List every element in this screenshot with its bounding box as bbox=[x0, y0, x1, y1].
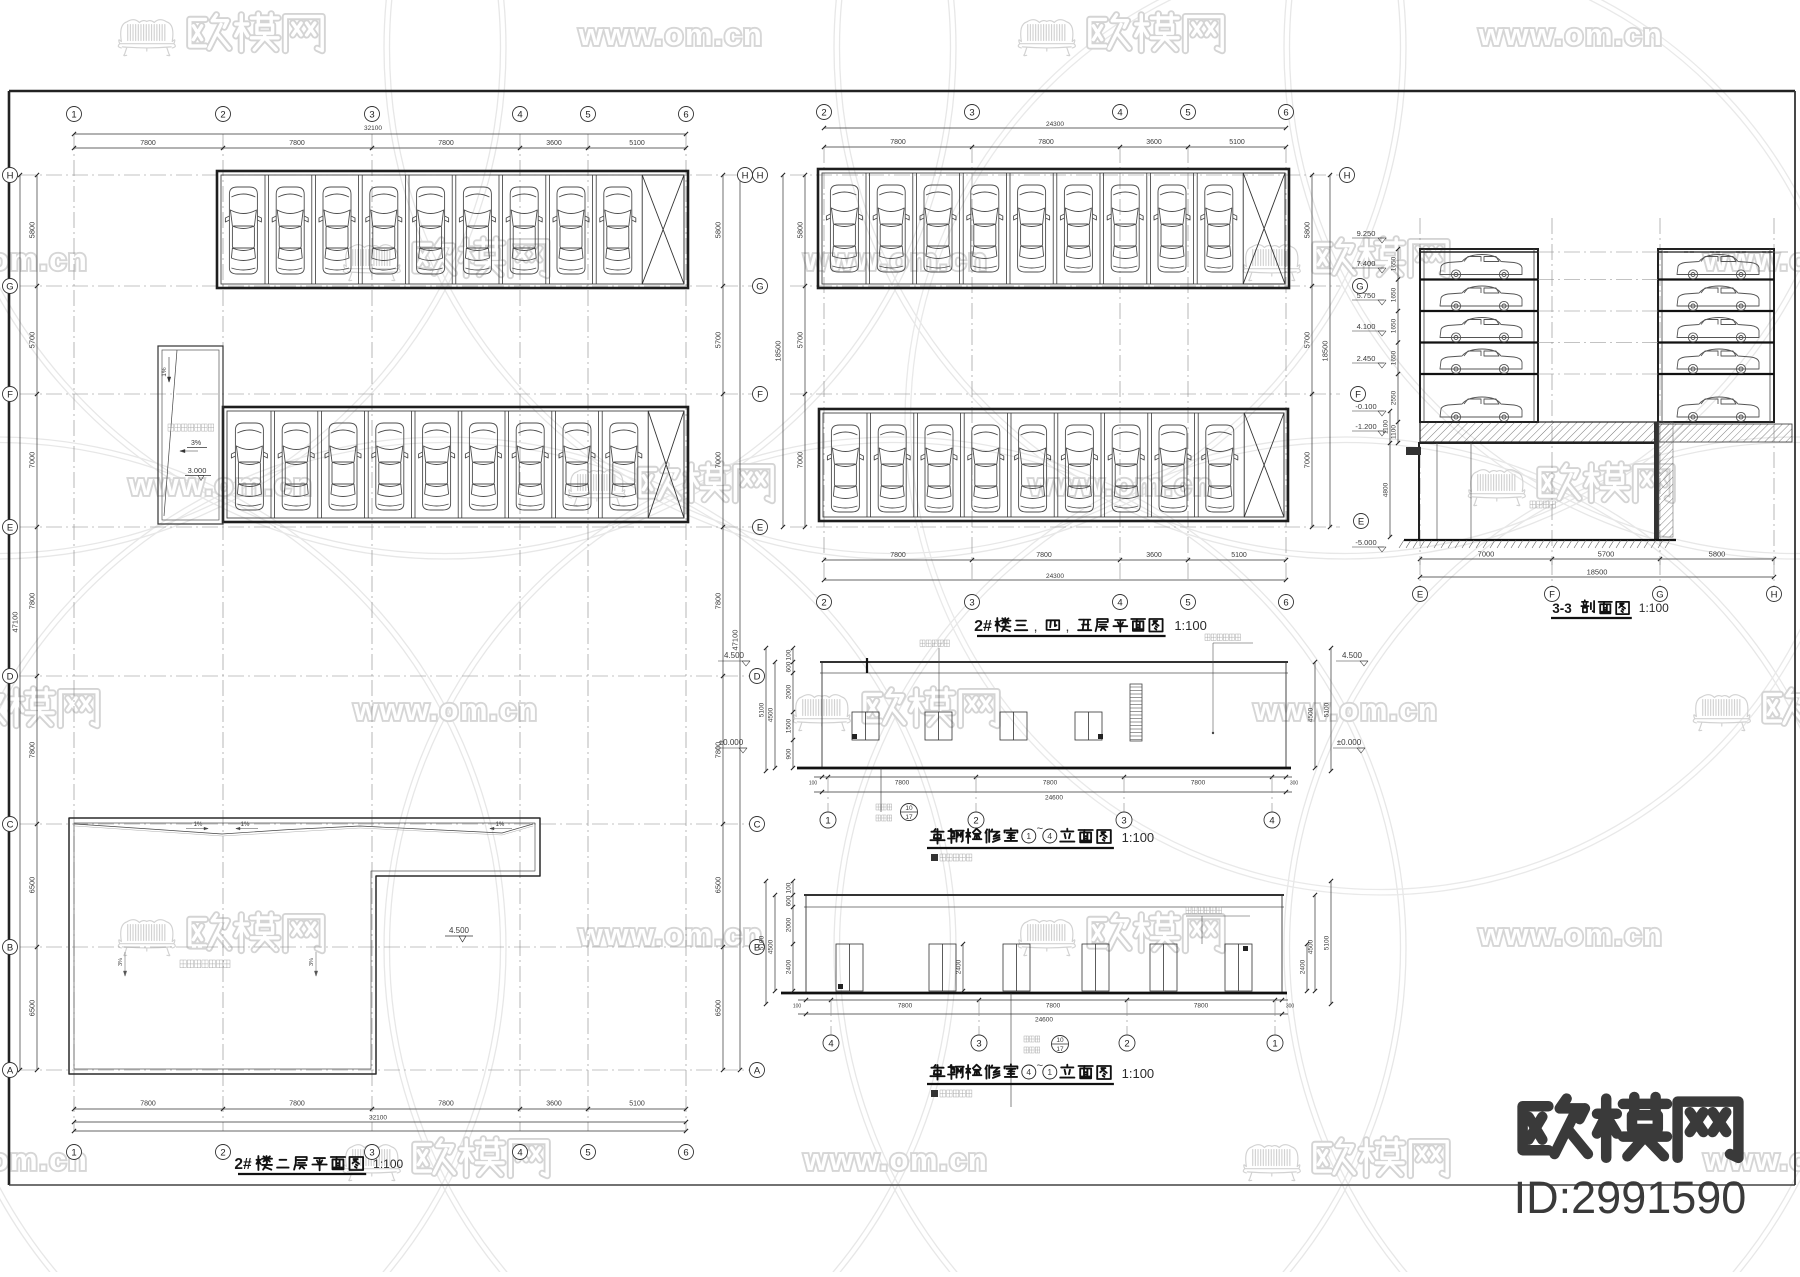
svg-text:www.om.cn: www.om.cn bbox=[353, 692, 539, 727]
svg-text:5700: 5700 bbox=[1598, 550, 1615, 559]
svg-text:www.om.cn: www.om.cn bbox=[1703, 242, 1800, 277]
svg-text:7800: 7800 bbox=[1194, 1003, 1209, 1010]
svg-text:H: H bbox=[757, 170, 764, 181]
svg-text:900: 900 bbox=[786, 748, 793, 759]
svg-text:18500: 18500 bbox=[1587, 568, 1608, 577]
svg-text:7800: 7800 bbox=[438, 1101, 454, 1108]
svg-text:5: 5 bbox=[585, 1147, 590, 1158]
svg-text:2550: 2550 bbox=[1391, 390, 1398, 405]
svg-text:4500: 4500 bbox=[1308, 939, 1315, 954]
svg-text:3: 3 bbox=[969, 597, 974, 608]
svg-text:7800: 7800 bbox=[890, 552, 906, 559]
svg-text:G: G bbox=[756, 281, 763, 292]
svg-text:7800: 7800 bbox=[1046, 1003, 1061, 1010]
svg-text:9.250: 9.250 bbox=[1357, 229, 1376, 238]
svg-text:24600: 24600 bbox=[1045, 795, 1063, 802]
svg-text:4: 4 bbox=[1117, 597, 1122, 608]
svg-text:2: 2 bbox=[220, 1147, 225, 1158]
svg-text:5100: 5100 bbox=[1229, 139, 1245, 146]
svg-text:7800: 7800 bbox=[1038, 139, 1054, 146]
svg-text:7800: 7800 bbox=[1043, 780, 1058, 787]
svg-text:5: 5 bbox=[1185, 597, 1190, 608]
svg-text:100: 100 bbox=[809, 781, 818, 787]
svg-text:1: 1 bbox=[71, 109, 76, 120]
svg-text:E: E bbox=[757, 522, 763, 533]
svg-text:5100: 5100 bbox=[629, 1101, 645, 1108]
svg-text:2: 2 bbox=[973, 815, 978, 826]
svg-text:-5.000: -5.000 bbox=[1355, 538, 1376, 547]
svg-text:,: , bbox=[1034, 618, 1038, 634]
svg-text:6: 6 bbox=[1283, 597, 1288, 608]
svg-text:2: 2 bbox=[821, 107, 826, 118]
svg-text:H: H bbox=[7, 170, 14, 181]
svg-text:3: 3 bbox=[976, 1038, 981, 1049]
svg-text:F: F bbox=[1549, 589, 1555, 600]
svg-text:F: F bbox=[7, 389, 13, 400]
svg-text:5100: 5100 bbox=[759, 935, 766, 950]
svg-text:4500: 4500 bbox=[1308, 707, 1315, 722]
svg-text:1%: 1% bbox=[161, 367, 168, 377]
svg-text:100: 100 bbox=[786, 882, 793, 893]
svg-text:2000: 2000 bbox=[786, 917, 793, 932]
svg-text:1%: 1% bbox=[194, 822, 203, 828]
svg-text:4500: 4500 bbox=[768, 939, 775, 954]
svg-text:5100: 5100 bbox=[1324, 702, 1331, 717]
svg-text:4.500: 4.500 bbox=[449, 926, 470, 935]
svg-text:1:100: 1:100 bbox=[1174, 618, 1207, 633]
svg-text:1:100: 1:100 bbox=[373, 1157, 403, 1171]
svg-text:A: A bbox=[754, 1065, 761, 1076]
svg-text:24300: 24300 bbox=[1046, 573, 1064, 580]
svg-text:2000: 2000 bbox=[786, 684, 793, 699]
svg-text:4: 4 bbox=[828, 1038, 833, 1049]
svg-text:2400: 2400 bbox=[1300, 959, 1307, 974]
svg-text:1650: 1650 bbox=[1391, 350, 1398, 365]
svg-text:G: G bbox=[1656, 589, 1663, 600]
svg-text:4: 4 bbox=[1269, 815, 1274, 826]
svg-text:2.450: 2.450 bbox=[1357, 354, 1376, 363]
svg-text:3600: 3600 bbox=[1146, 139, 1162, 146]
svg-text:www.om.cn: www.om.cn bbox=[578, 17, 764, 52]
svg-text:C: C bbox=[754, 819, 761, 830]
svg-text:3600: 3600 bbox=[546, 1101, 562, 1108]
svg-text:100: 100 bbox=[786, 649, 793, 660]
svg-text:4: 4 bbox=[1026, 1067, 1031, 1077]
svg-text:5800: 5800 bbox=[1709, 550, 1726, 559]
svg-text:3%: 3% bbox=[309, 958, 315, 966]
svg-text:7800: 7800 bbox=[438, 140, 454, 147]
svg-text:1: 1 bbox=[825, 815, 830, 826]
svg-text:1:100: 1:100 bbox=[1122, 830, 1155, 845]
svg-text:B: B bbox=[7, 942, 13, 953]
svg-text:7800: 7800 bbox=[714, 593, 723, 610]
svg-text:5100: 5100 bbox=[1324, 935, 1331, 950]
svg-text:7800: 7800 bbox=[890, 139, 906, 146]
svg-text:3: 3 bbox=[1121, 815, 1126, 826]
svg-text:5100: 5100 bbox=[759, 702, 766, 717]
svg-text:www.om.cn: www.om.cn bbox=[1478, 17, 1664, 52]
svg-text:5800: 5800 bbox=[28, 222, 37, 239]
svg-text:4.500: 4.500 bbox=[1342, 651, 1363, 660]
svg-text:47100: 47100 bbox=[11, 612, 20, 633]
svg-text:1500: 1500 bbox=[786, 718, 793, 733]
svg-text:1%: 1% bbox=[241, 822, 250, 828]
svg-text:24600: 24600 bbox=[1035, 1017, 1053, 1024]
svg-text:1: 1 bbox=[1047, 1067, 1052, 1077]
svg-text:7000: 7000 bbox=[796, 452, 805, 469]
svg-text:www.om.cn: www.om.cn bbox=[1478, 917, 1664, 952]
svg-text:18500: 18500 bbox=[1321, 341, 1330, 362]
svg-text:2: 2 bbox=[1124, 1038, 1129, 1049]
svg-text:7800: 7800 bbox=[28, 742, 37, 759]
svg-text:6500: 6500 bbox=[28, 1000, 37, 1017]
svg-text:H: H bbox=[1344, 170, 1351, 181]
svg-text:6500: 6500 bbox=[714, 1000, 723, 1017]
svg-text:2#: 2# bbox=[974, 618, 992, 635]
svg-text:1100: 1100 bbox=[1391, 425, 1398, 439]
svg-text:3600: 3600 bbox=[1146, 552, 1162, 559]
svg-text:5700: 5700 bbox=[796, 332, 805, 349]
svg-text:1: 1 bbox=[71, 1147, 76, 1158]
svg-text:G: G bbox=[6, 281, 13, 292]
svg-text:5100: 5100 bbox=[1231, 552, 1247, 559]
svg-text:6: 6 bbox=[1283, 107, 1288, 118]
svg-text:24300: 24300 bbox=[1046, 121, 1064, 128]
svg-text:www.om.cn: www.om.cn bbox=[0, 242, 88, 277]
svg-text:47100: 47100 bbox=[731, 630, 740, 651]
svg-text:7000: 7000 bbox=[28, 452, 37, 469]
svg-text:www.om.cn: www.om.cn bbox=[1253, 692, 1439, 727]
svg-text:7800: 7800 bbox=[28, 593, 37, 610]
svg-text:1: 1 bbox=[1272, 1038, 1277, 1049]
svg-text:4.100: 4.100 bbox=[1357, 322, 1376, 331]
svg-text:D: D bbox=[754, 671, 761, 682]
svg-text:100: 100 bbox=[793, 1004, 802, 1010]
svg-text:4: 4 bbox=[517, 1147, 522, 1158]
svg-text:3%: 3% bbox=[191, 440, 201, 447]
svg-text:E: E bbox=[1417, 589, 1423, 600]
svg-text:5700: 5700 bbox=[714, 332, 723, 349]
svg-text:3600: 3600 bbox=[546, 140, 562, 147]
svg-text:www.om.cn: www.om.cn bbox=[1028, 467, 1214, 502]
svg-text:6500: 6500 bbox=[714, 877, 723, 894]
svg-text:7800: 7800 bbox=[289, 140, 305, 147]
svg-text:4800: 4800 bbox=[1383, 482, 1390, 497]
svg-text:5700: 5700 bbox=[1303, 332, 1312, 349]
svg-text:7800: 7800 bbox=[895, 780, 910, 787]
svg-text:www.om.cn: www.om.cn bbox=[803, 1142, 989, 1177]
svg-text:ID:2991590: ID:2991590 bbox=[1514, 1172, 1747, 1223]
svg-text:E: E bbox=[7, 522, 13, 533]
svg-text:5800: 5800 bbox=[796, 222, 805, 239]
svg-text:4: 4 bbox=[1117, 107, 1122, 118]
svg-text:-0.100: -0.100 bbox=[1355, 402, 1376, 411]
svg-text:G: G bbox=[1356, 281, 1363, 292]
svg-text:±0.000: ±0.000 bbox=[719, 738, 744, 747]
svg-text:-1.200: -1.200 bbox=[1355, 422, 1376, 431]
svg-text:3: 3 bbox=[969, 107, 974, 118]
svg-text:3.000: 3.000 bbox=[188, 466, 207, 475]
svg-text:3%: 3% bbox=[118, 958, 124, 966]
svg-text:7000: 7000 bbox=[714, 452, 723, 469]
svg-text:1%: 1% bbox=[496, 822, 505, 828]
svg-text:5: 5 bbox=[585, 109, 590, 120]
svg-text:17: 17 bbox=[1056, 1046, 1064, 1053]
svg-text:2400: 2400 bbox=[786, 959, 793, 974]
svg-text:F: F bbox=[1355, 389, 1361, 400]
svg-text:4.500: 4.500 bbox=[724, 651, 745, 660]
svg-text:6: 6 bbox=[683, 1147, 688, 1158]
svg-text:32100: 32100 bbox=[364, 125, 382, 132]
svg-text:10: 10 bbox=[1056, 1037, 1064, 1044]
svg-text:7800: 7800 bbox=[289, 1101, 305, 1108]
svg-text:4: 4 bbox=[1047, 831, 1052, 841]
svg-text:17: 17 bbox=[905, 814, 913, 821]
svg-text:5800: 5800 bbox=[1303, 222, 1312, 239]
svg-text:7800: 7800 bbox=[140, 140, 156, 147]
svg-text:7800: 7800 bbox=[898, 1003, 913, 1010]
svg-text:1100: 1100 bbox=[1383, 420, 1390, 434]
svg-text:1: 1 bbox=[1026, 831, 1031, 841]
svg-text:10: 10 bbox=[905, 805, 913, 812]
svg-text:~: ~ bbox=[1037, 1060, 1043, 1072]
svg-text:3-3: 3-3 bbox=[1552, 601, 1572, 616]
svg-text:1:100: 1:100 bbox=[1639, 601, 1669, 615]
svg-text:300: 300 bbox=[1286, 1004, 1295, 1010]
svg-text:7000: 7000 bbox=[1478, 550, 1495, 559]
svg-text:F: F bbox=[757, 389, 763, 400]
svg-text:5100: 5100 bbox=[629, 140, 645, 147]
svg-text:5700: 5700 bbox=[28, 332, 37, 349]
svg-text:3: 3 bbox=[369, 109, 374, 120]
svg-text:4500: 4500 bbox=[768, 707, 775, 722]
svg-text:6: 6 bbox=[683, 109, 688, 120]
svg-text:7.400: 7.400 bbox=[1357, 259, 1376, 268]
svg-text:D: D bbox=[7, 671, 14, 682]
svg-text:300: 300 bbox=[1290, 781, 1299, 787]
svg-text:32100: 32100 bbox=[369, 1115, 387, 1122]
svg-text:6500: 6500 bbox=[28, 877, 37, 894]
svg-text:1:100: 1:100 bbox=[1122, 1066, 1155, 1081]
svg-text:±0.000: ±0.000 bbox=[1337, 738, 1362, 747]
svg-text:1650: 1650 bbox=[1391, 256, 1398, 271]
svg-text:600: 600 bbox=[786, 661, 793, 672]
svg-text:C: C bbox=[7, 819, 14, 830]
svg-text:7800: 7800 bbox=[140, 1101, 156, 1108]
svg-text:600: 600 bbox=[786, 895, 793, 906]
svg-text:18500: 18500 bbox=[774, 341, 783, 362]
svg-text:7800: 7800 bbox=[1191, 780, 1206, 787]
svg-text:7000: 7000 bbox=[1303, 452, 1312, 469]
svg-text:E: E bbox=[1358, 516, 1364, 527]
svg-text:1650: 1650 bbox=[1391, 318, 1398, 333]
svg-text:5800: 5800 bbox=[714, 222, 723, 239]
svg-text:4: 4 bbox=[517, 109, 522, 120]
svg-text:H: H bbox=[1771, 589, 1778, 600]
svg-text:5: 5 bbox=[1185, 107, 1190, 118]
svg-text:2400: 2400 bbox=[956, 959, 963, 974]
svg-text:H: H bbox=[742, 170, 749, 181]
svg-text:~: ~ bbox=[1037, 823, 1043, 835]
svg-text:2: 2 bbox=[821, 597, 826, 608]
svg-text:2#: 2# bbox=[234, 1156, 252, 1173]
svg-text:A: A bbox=[7, 1065, 14, 1076]
svg-text:1650: 1650 bbox=[1391, 287, 1398, 302]
svg-text:2: 2 bbox=[220, 109, 225, 120]
svg-text:,: , bbox=[1066, 618, 1070, 634]
svg-text:7800: 7800 bbox=[1036, 552, 1052, 559]
